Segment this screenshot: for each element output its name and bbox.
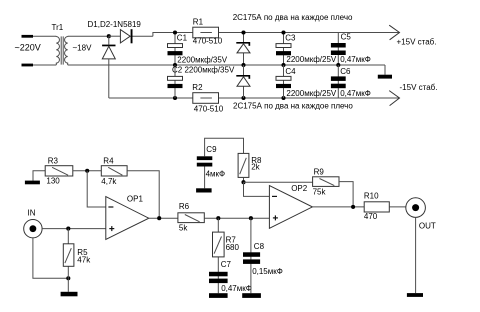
- svg-text:680: 680: [226, 243, 240, 252]
- wire: [244, 181, 313, 183]
- ground: [25, 181, 40, 185]
- node junction: [281, 30, 285, 34]
- svg-text:C6: C6: [340, 67, 351, 76]
- ground: [61, 292, 78, 297]
- svg-text:C1: C1: [177, 34, 188, 43]
- svg-text:OP1: OP1: [127, 195, 144, 204]
- wire: [127, 171, 159, 218]
- svg-text:C5: C5: [341, 33, 352, 42]
- op-amp OP1: [106, 197, 149, 240]
- wire: [204, 217, 269, 219]
- svg-text:75k: 75k: [313, 188, 327, 197]
- wire: [174, 33, 176, 66]
- ground: [196, 188, 212, 192]
- capacitor C6: [331, 76, 346, 81]
- wire: [33, 238, 68, 278]
- node junction: [241, 63, 245, 67]
- ground: [407, 293, 423, 297]
- svg-text:0,47мкФ: 0,47мкФ: [340, 89, 371, 98]
- svg-text:4мкФ: 4мкФ: [206, 170, 226, 179]
- resistor R1: [193, 27, 219, 38]
- resistor R9: [313, 177, 339, 187]
- node junction: [173, 30, 177, 34]
- wire: [339, 182, 353, 207]
- wire: [174, 65, 176, 98]
- resistor R6: [178, 213, 204, 223]
- svg-text:R3: R3: [48, 157, 59, 166]
- ground: [209, 293, 228, 298]
- wire: [243, 33, 245, 66]
- wire: [389, 206, 406, 208]
- svg-text:Tr1: Tr1: [52, 23, 64, 32]
- svg-text:2200мкф/35V: 2200мкф/35V: [177, 56, 228, 65]
- resistor R5: [63, 244, 74, 266]
- op-amp OP2: [269, 186, 312, 229]
- wire: [204, 167, 206, 189]
- connector OUT: [406, 198, 426, 218]
- svg-text:0,47мкФ: 0,47мкФ: [340, 55, 371, 64]
- node junction: [281, 63, 285, 67]
- svg-text:47k: 47k: [77, 256, 91, 265]
- node junction: [66, 276, 70, 280]
- svg-text:+15V стаб.: +15V стаб.: [397, 38, 437, 47]
- wire: [283, 33, 285, 66]
- wire: [205, 138, 244, 156]
- svg-text:2k: 2k: [251, 162, 260, 171]
- node junction: [281, 96, 285, 100]
- wire: [42, 228, 106, 230]
- svg-text:~18V: ~18V: [73, 43, 93, 52]
- resistor R7: [213, 232, 225, 257]
- svg-text:2200мкф/25V: 2200мкф/25V: [286, 89, 337, 98]
- wire: [33, 35, 56, 37]
- svg-text:R2: R2: [192, 83, 203, 92]
- node junction: [173, 96, 177, 100]
- node junction: [157, 216, 161, 220]
- resistor R4: [101, 166, 127, 176]
- capacitor C5: [331, 43, 346, 48]
- svg-text:470-510: 470-510: [194, 105, 224, 114]
- svg-text:R10: R10: [364, 191, 379, 200]
- wire: [33, 171, 45, 181]
- wire: [337, 65, 339, 98]
- svg-text:470-510: 470-510: [193, 37, 223, 46]
- svg-text:R6: R6: [179, 202, 190, 211]
- svg-text:IN: IN: [28, 209, 36, 218]
- node junction: [85, 169, 89, 173]
- node junction: [241, 180, 245, 184]
- svg-text:5k: 5k: [179, 224, 188, 233]
- node junction: [107, 34, 111, 38]
- wire: [244, 182, 270, 196]
- capacitor C1: [168, 44, 183, 48]
- wire (mid rail): [68, 64, 385, 66]
- node junction: [66, 227, 70, 231]
- svg-text:OP2: OP2: [291, 184, 308, 193]
- AC mains terminal top (~220V): [22, 35, 34, 38]
- node junction: [241, 96, 245, 100]
- node junction: [351, 205, 355, 209]
- svg-text:C2 2200мкф/35V: C2 2200мкф/35V: [172, 66, 235, 75]
- svg-text:0,15мкФ: 0,15мкФ: [252, 267, 283, 276]
- node junction: [336, 63, 340, 67]
- svg-text:2С175А по два на каждое плечо: 2С175А по два на каждое плечо: [233, 101, 353, 110]
- node junction: [241, 30, 245, 34]
- output arrow +15V: [389, 25, 399, 40]
- svg-text:~220V: ~220V: [15, 42, 41, 52]
- svg-text:2С175А по два на каждое плечо: 2С175А по два на каждое плечо: [233, 13, 353, 22]
- wire: [337, 33, 339, 66]
- svg-text:2200мкф/25V: 2200мкф/25V: [286, 55, 337, 64]
- wire: [217, 218, 219, 293]
- resistor R10: [364, 202, 389, 212]
- svg-text:R4: R4: [103, 157, 114, 166]
- wire: [312, 206, 364, 208]
- zener diode VD4 (2С175А): [236, 75, 248, 77]
- capacitor C2: [168, 76, 183, 80]
- capacitor C9: [197, 156, 213, 160]
- capacitor C7: [209, 272, 228, 277]
- wire: [87, 171, 106, 207]
- connector IN: [24, 220, 42, 238]
- wire (negative rail): [109, 97, 400, 99]
- ground: [242, 293, 261, 298]
- wire: [33, 64, 56, 66]
- svg-text:D1,D2-1N5819: D1,D2-1N5819: [88, 20, 142, 29]
- resistor R3: [45, 166, 73, 176]
- transformer Tr1 core: [60, 36, 62, 64]
- wire: [73, 170, 102, 172]
- svg-text:C8: C8: [254, 242, 265, 251]
- wire: [67, 229, 69, 279]
- svg-text:0,47мкФ: 0,47мкФ: [221, 284, 252, 293]
- wire: [243, 65, 245, 98]
- wire: [384, 65, 386, 75]
- wire: [250, 218, 252, 293]
- diode D1: [109, 35, 121, 37]
- transformer Tr1 secondary winding: [65, 36, 68, 65]
- resistor R2: [193, 93, 219, 104]
- wire: [68, 35, 109, 37]
- svg-text:R9: R9: [314, 168, 325, 177]
- capacitor C3: [276, 44, 291, 48]
- wire: [243, 177, 245, 182]
- zener diode VD3 (2С175А): [236, 42, 248, 44]
- svg-text:C3: C3: [285, 34, 296, 43]
- diode D2: [108, 36, 110, 44]
- svg-text:R1: R1: [193, 18, 204, 27]
- svg-text:C4: C4: [285, 67, 296, 76]
- svg-text:-15V стаб.: -15V стаб.: [400, 83, 438, 92]
- svg-text:130: 130: [46, 176, 60, 185]
- svg-text:4,7k: 4,7k: [101, 177, 117, 186]
- wire: [67, 278, 69, 292]
- wire: [415, 217, 417, 293]
- ground: [378, 75, 392, 79]
- node junction: [216, 216, 220, 220]
- AC mains terminal bottom (~220V): [22, 64, 34, 67]
- transformer Tr1 primary winding: [56, 36, 59, 65]
- wire: [283, 65, 285, 98]
- wire: [149, 217, 178, 219]
- capacitor C4: [276, 76, 291, 80]
- output arrow -15V: [389, 91, 399, 106]
- capacitor C8: [243, 252, 260, 256]
- svg-text:C9: C9: [206, 145, 217, 154]
- resistor R8: [238, 153, 249, 177]
- wire: [153, 33, 400, 37]
- svg-text:470: 470: [364, 212, 378, 221]
- svg-text:C7: C7: [221, 260, 232, 269]
- node junction: [173, 63, 177, 67]
- node junction: [249, 216, 253, 220]
- svg-text:OUT: OUT: [419, 222, 436, 231]
